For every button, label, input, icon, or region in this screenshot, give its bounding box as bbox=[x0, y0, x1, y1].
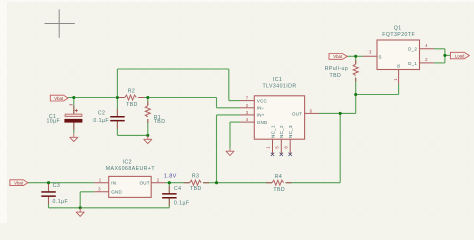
wire C2 top bbox=[116, 98, 118, 117]
svg-text:NC_3: NC_3 bbox=[288, 125, 293, 138]
svg-text:C2: C2 bbox=[98, 110, 106, 116]
svg-text:G: G bbox=[396, 64, 401, 68]
svg-text:D_1: D_1 bbox=[408, 61, 417, 66]
wire to Load flag bbox=[445, 54, 451, 56]
wire VCC top rail bbox=[117, 68, 228, 70]
wire D_2 to load corner bbox=[434, 48, 445, 50]
svg-text:TBD: TBD bbox=[154, 119, 166, 125]
wire VCC riser bbox=[116, 69, 118, 98]
svg-text:TBD: TBD bbox=[126, 102, 138, 108]
svg-text:TBD: TBD bbox=[190, 186, 202, 192]
wire R1 bottom bbox=[147, 119, 149, 135]
svg-text:IC1: IC1 bbox=[273, 77, 282, 83]
no-connect X (IC1 NC_1) bbox=[271, 153, 274, 156]
wire C1 bottom to ground bbox=[73, 123, 75, 134]
wire Vbat to IC2 IN bbox=[28, 182, 94, 184]
wire IN+ riser from divider bbox=[216, 115, 218, 183]
svg-text:1.8V: 1.8V bbox=[164, 174, 177, 180]
power flag Vbat (bottom left) bbox=[10, 180, 28, 186]
wire feedback drop bbox=[339, 113, 341, 182]
svg-text:GND: GND bbox=[257, 120, 268, 125]
wire C2 bottom bbox=[116, 121, 118, 135]
junction J2 bbox=[116, 96, 119, 99]
wire R2 right to IN- jog bbox=[138, 97, 216, 99]
wire C2 to R1 bottom bbox=[117, 134, 147, 136]
junction J6 bbox=[168, 181, 171, 184]
wire drain tie bbox=[444, 49, 446, 63]
transistor Q1 FQT3P20TF (P-MOSFET) bbox=[363, 25, 434, 84]
wire C1 top bbox=[73, 98, 75, 115]
svg-text:VCC: VCC bbox=[257, 98, 268, 103]
wire bottom ground rail bbox=[49, 207, 170, 209]
wire C4 top / 1.8V node bbox=[168, 183, 170, 193]
junction J12 bbox=[443, 54, 446, 57]
wire C3 bottom bbox=[48, 197, 50, 208]
net flag Load bbox=[450, 52, 469, 59]
svg-text:R2: R2 bbox=[128, 88, 136, 94]
capacitor C4 bbox=[162, 186, 189, 207]
svg-text:FQT3P20TF: FQT3P20TF bbox=[382, 32, 415, 38]
svg-text:Load: Load bbox=[455, 53, 465, 58]
origin cross marker bbox=[45, 9, 75, 37]
junction J11 bbox=[354, 93, 357, 96]
svg-text:Vbat: Vbat bbox=[333, 54, 343, 59]
svg-text:0.1µF: 0.1µF bbox=[53, 199, 69, 205]
svg-text:MAX6068AEUR+T: MAX6068AEUR+T bbox=[106, 166, 156, 172]
junction J4 bbox=[146, 134, 149, 137]
no-connect X (IC1 NC_2) bbox=[280, 153, 283, 156]
resistor R1 bbox=[145, 102, 165, 126]
wire IN- into IC1 pin 2 bbox=[217, 107, 241, 109]
wire IN+ into IC1 pin 3 bbox=[217, 114, 241, 116]
op-amp comparator IC1 TLV3401IDR bbox=[240, 77, 319, 154]
wire gate link bbox=[356, 94, 399, 96]
wire VCC drop to pin 7 bbox=[228, 69, 230, 101]
resistor R2 bbox=[119, 88, 145, 108]
wire R3 to divider junction bbox=[203, 182, 216, 184]
svg-text:C4: C4 bbox=[174, 186, 182, 192]
svg-text:NC_1: NC_1 bbox=[270, 125, 275, 138]
ground (bottom rail) bbox=[76, 208, 84, 217]
capacitor C2 bbox=[93, 109, 124, 129]
svg-text:NC_2: NC_2 bbox=[279, 125, 284, 138]
svg-text:TBD: TBD bbox=[329, 73, 341, 79]
capacitor C1 (polarized) bbox=[46, 105, 82, 130]
svg-text:C3: C3 bbox=[53, 183, 61, 189]
svg-text:R3: R3 bbox=[192, 174, 200, 180]
wire C3 top bbox=[48, 183, 50, 192]
wire Vbat to Q1 source bbox=[347, 55, 362, 57]
wire feedback bottom bbox=[286, 182, 341, 184]
junction J9 bbox=[339, 112, 342, 115]
capacitor C3 bbox=[41, 183, 68, 205]
wire 1.8V node to R3 bbox=[166, 182, 190, 184]
wire VCC into IC1 pin 7 bbox=[229, 100, 240, 102]
junction J5 bbox=[215, 181, 218, 184]
svg-text:IC2: IC2 bbox=[123, 160, 132, 166]
no-connect X (IC1 NC_3) bbox=[289, 153, 292, 156]
svg-text:TBD: TBD bbox=[273, 187, 285, 193]
wire gate drop bbox=[398, 84, 400, 95]
svg-text:10µF: 10µF bbox=[46, 119, 60, 125]
resistor RPull-up bbox=[325, 60, 359, 82]
svg-text:RPull-up: RPull-up bbox=[325, 66, 349, 72]
wire divider mid to R4 bbox=[217, 182, 273, 184]
svg-text:Vbat: Vbat bbox=[14, 181, 24, 186]
svg-text:OUT: OUT bbox=[140, 180, 150, 185]
svg-text:Q1: Q1 bbox=[394, 25, 402, 31]
wire C4 bottom bbox=[168, 199, 170, 208]
voltage reference IC2 MAX6068AEUR+T bbox=[94, 160, 165, 198]
wire pull-up bottom to OUT corner bbox=[355, 78, 357, 114]
ground (under R1) bbox=[144, 135, 152, 143]
svg-text:IN+: IN+ bbox=[257, 113, 265, 118]
wire D_1 to load corner bbox=[434, 62, 445, 64]
power flag Vbat (top left) bbox=[50, 95, 68, 101]
wire Vbat rail to R2 left bbox=[68, 97, 125, 99]
resistor R4 bbox=[266, 174, 292, 193]
junction J1 bbox=[72, 96, 75, 99]
wire pull-up top bbox=[355, 56, 357, 64]
wire IC2 GND drop bbox=[79, 192, 81, 208]
wire R1 top bbox=[147, 98, 149, 106]
svg-text:D_2: D_2 bbox=[408, 47, 417, 52]
svg-text:TLV3401IDR: TLV3401IDR bbox=[262, 84, 296, 90]
junction J3 bbox=[146, 96, 149, 99]
wire IC1 pin 4 to ground corner bbox=[230, 121, 240, 123]
svg-text:IN−: IN− bbox=[257, 106, 265, 111]
svg-text:Vbat: Vbat bbox=[54, 96, 64, 101]
wire IC1 ground drop bbox=[229, 122, 231, 149]
junction J8 bbox=[79, 206, 82, 209]
wire IC2 GND jog bbox=[80, 191, 94, 193]
junction J10 bbox=[354, 55, 357, 58]
svg-text:0.1µF: 0.1µF bbox=[93, 118, 109, 124]
svg-text:R4: R4 bbox=[275, 174, 283, 180]
resistor R3 bbox=[184, 174, 210, 192]
svg-text:OUT: OUT bbox=[292, 111, 302, 116]
svg-text:IN: IN bbox=[111, 180, 116, 185]
power flag Vbat (top right) bbox=[329, 54, 347, 60]
wire IN- jog down bbox=[216, 98, 218, 108]
svg-text:0.1µF: 0.1µF bbox=[174, 200, 190, 206]
junction J7 bbox=[47, 181, 50, 184]
svg-text:S: S bbox=[379, 54, 382, 59]
ground (IC1 pin 4) bbox=[226, 149, 234, 156]
wire OUT of IC1 bbox=[319, 112, 356, 114]
ground (under C1) bbox=[70, 133, 78, 141]
svg-text:GND: GND bbox=[111, 190, 122, 195]
